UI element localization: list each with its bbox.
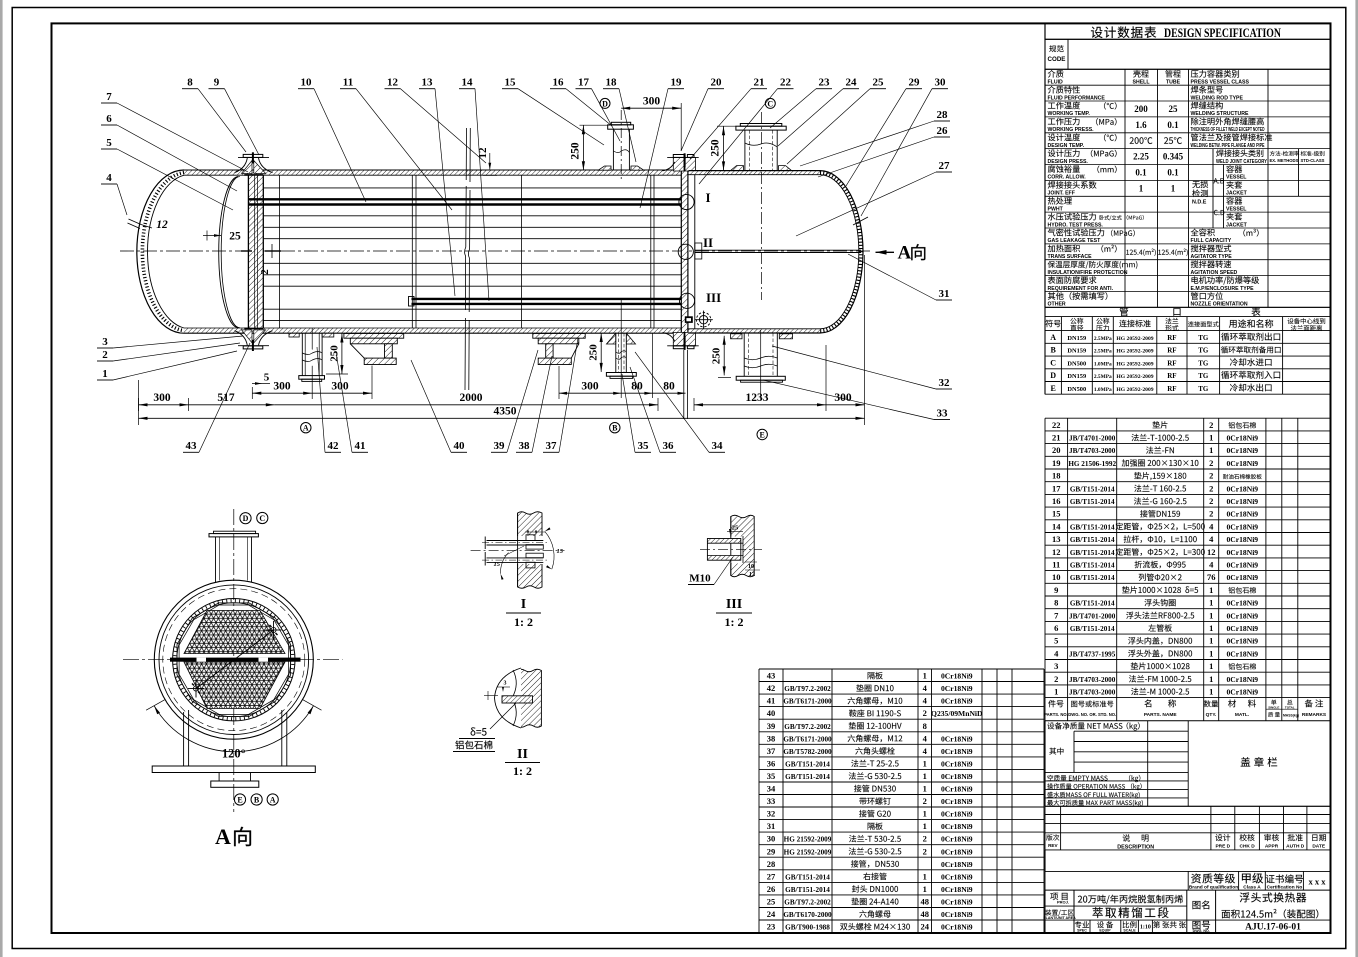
svg-text:23: 23 [819, 77, 831, 89]
nozzle B (bottom, item 34/35/36) [620, 300, 622, 398]
svg-text:18: 18 [1052, 471, 1061, 481]
svg-text:SPEC: SPEC [1077, 929, 1087, 933]
svg-text:9: 9 [214, 77, 220, 89]
dim 2 tubesheet gap [259, 269, 271, 275]
svg-text:A: A [898, 243, 912, 264]
svg-text:19: 19 [1052, 458, 1061, 468]
break lines [465, 128, 467, 390]
svg-text:CODE: CODE [1048, 56, 1066, 63]
svg-text:DN500: DN500 [1067, 360, 1086, 367]
svg-text:11: 11 [1052, 560, 1060, 570]
svg-text:WELD JOINT CATEGORY: WELD JOINT CATEGORY [1216, 159, 1268, 165]
nozzle schedule table [1045, 23, 1330, 394]
svg-text:II: II [517, 747, 528, 762]
svg-text:2: 2 [923, 796, 927, 806]
svg-text:0Cr18Ni9: 0Cr18Ni9 [941, 672, 973, 681]
svg-text:6: 6 [106, 113, 112, 125]
svg-text:10: 10 [748, 564, 754, 570]
svg-text:1: 1 [1209, 687, 1213, 697]
A-view shell circles [173, 599, 295, 721]
svg-text:1: 1 [923, 784, 927, 794]
svg-text:PRESS VESSEL CLASS: PRESS VESSEL CLASS [1191, 80, 1250, 86]
svg-text:M10: M10 [689, 573, 711, 585]
svg-text:REQUIREMENT FOR ANTI.: REQUIREMENT FOR ANTI. [1048, 286, 1114, 292]
svg-text:120°: 120° [222, 747, 246, 761]
main centerline [120, 250, 872, 252]
nozzle A (bottom left) [311, 328, 313, 399]
svg-text:0.345: 0.345 [1163, 152, 1184, 162]
svg-text:RF: RF [1167, 372, 1176, 380]
svg-text:I: I [521, 597, 526, 612]
svg-text:40: 40 [454, 440, 466, 452]
design specification table [1045, 23, 1330, 307]
svg-text:37: 37 [767, 746, 776, 756]
left tubesheet column (item 6) [248, 175, 263, 329]
label C circle [765, 98, 775, 108]
dim 2000 [275, 404, 658, 406]
svg-text:20: 20 [1052, 445, 1061, 455]
svg-text:28: 28 [937, 109, 949, 121]
svg-text:7: 7 [1054, 610, 1059, 620]
svg-text:43: 43 [186, 440, 198, 452]
svg-text:0Cr18Ni9: 0Cr18Ni9 [1226, 675, 1258, 684]
svg-text:13: 13 [1052, 534, 1061, 544]
svg-text:GB/T6170-2000: GB/T6170-2000 [783, 911, 832, 919]
svg-text:GB/T151-2014: GB/T151-2014 [1070, 549, 1115, 557]
svg-text:C: C [767, 99, 773, 108]
svg-text:0Cr18Ni9: 0Cr18Ni9 [941, 885, 973, 894]
svg-text:34: 34 [767, 784, 776, 794]
svg-text:1: 1 [923, 871, 927, 881]
svg-text:0Cr18Ni9: 0Cr18Ni9 [1226, 688, 1258, 697]
svg-text:48: 48 [921, 909, 930, 919]
svg-text:GB/T151-2014: GB/T151-2014 [785, 760, 830, 768]
svg-text:25: 25 [229, 231, 241, 243]
upper tie-rod band (items 10/13/14) [248, 198, 681, 200]
svg-text:0Cr18Ni9: 0Cr18Ni9 [1226, 497, 1258, 506]
svg-text:0Cr18Ni9: 0Cr18Ni9 [1226, 649, 1258, 658]
svg-text:CORR. ALLOW.: CORR. ALLOW. [1048, 175, 1087, 181]
svg-text:1: 1 [1209, 433, 1213, 443]
cover dished head [820, 171, 863, 333]
svg-text:0Cr18Ni9: 0Cr18Ni9 [1226, 484, 1258, 493]
detail I expansion marks [526, 535, 535, 541]
svg-text:GB/T151-2014: GB/T151-2014 [1070, 523, 1115, 531]
svg-text:0Cr18Ni9: 0Cr18Ni9 [941, 860, 973, 869]
detail III dims [727, 531, 743, 533]
cover partition plate (item 31) [695, 249, 861, 251]
svg-text:0Cr18Ni9: 0Cr18Ni9 [1226, 599, 1258, 608]
svg-text:0Cr18Ni9: 0Cr18Ni9 [941, 772, 973, 781]
svg-text:RF: RF [1167, 385, 1176, 393]
svg-text:12: 12 [387, 77, 399, 89]
dim 1233/300 [694, 404, 865, 406]
svg-text:EX. METHODS: EX. METHODS [1270, 158, 1299, 163]
svg-text:RF: RF [1167, 334, 1176, 342]
svg-text:24: 24 [846, 77, 858, 89]
svg-text:20: 20 [711, 77, 723, 89]
svg-text:E: E [1051, 384, 1056, 393]
svg-text:B: B [612, 424, 618, 433]
svg-text:34: 34 [712, 440, 724, 452]
svg-text:2: 2 [1209, 420, 1213, 430]
svg-text:DN159: DN159 [1067, 348, 1086, 355]
svg-text:0Cr18Ni9: 0Cr18Ni9 [941, 910, 973, 919]
floating head assembly hint [695, 243, 702, 259]
svg-text:0Cr18Ni9: 0Cr18Ni9 [1226, 510, 1258, 519]
svg-text:4: 4 [923, 696, 928, 706]
canvas edge strips [0, 0, 3, 957]
svg-text:1233: 1233 [746, 392, 769, 404]
svg-text:SINGLE: SINGLE [1268, 706, 1279, 710]
svg-text:22: 22 [780, 77, 792, 89]
svg-text:E: E [760, 430, 765, 439]
120 degree arc [154, 706, 313, 752]
bottom nozzle label E [757, 429, 767, 439]
svg-text:30: 30 [767, 834, 776, 844]
A-view saddle [183, 712, 185, 766]
svg-text:15: 15 [505, 77, 517, 89]
svg-text:2.5MPa: 2.5MPa [1094, 349, 1112, 355]
svg-text:21: 21 [754, 77, 765, 89]
svg-text:HG 21592-2009: HG 21592-2009 [784, 848, 832, 856]
svg-text:0Cr18Ni9: 0Cr18Ni9 [1226, 561, 1258, 570]
svg-text:1: 1 [1209, 648, 1213, 658]
svg-text:27: 27 [767, 871, 776, 881]
svg-text:THICKNESS OF FILLET WELD EXCEP: THICKNESS OF FILLET WELD EXCEPT NOTED [1191, 127, 1265, 133]
svg-text:GB/T151-2014: GB/T151-2014 [1070, 625, 1115, 633]
svg-text:0Cr18Ni9: 0Cr18Ni9 [941, 747, 973, 756]
svg-text:31: 31 [939, 288, 950, 300]
detail I tube ends [487, 540, 544, 542]
svg-text:33: 33 [937, 407, 949, 419]
svg-text:GB/T151-2014: GB/T151-2014 [1070, 485, 1115, 493]
svg-text:E.M.P/ENCLOSURE TYPE: E.M.P/ENCLOSURE TYPE [1191, 286, 1255, 292]
svg-text:31: 31 [767, 821, 776, 831]
svg-text:CHK D: CHK D [1239, 844, 1255, 850]
svg-text:35: 35 [767, 771, 776, 781]
svg-text:38: 38 [767, 733, 776, 743]
detail II gasket groove outline [495, 668, 522, 728]
svg-text:0Cr18Ni9: 0Cr18Ni9 [1226, 535, 1258, 544]
svg-text:PRE D: PRE D [1215, 844, 1230, 850]
svg-text:300: 300 [273, 381, 291, 393]
dim 4350 [139, 417, 865, 419]
svg-text:0Cr18Ni9: 0Cr18Ni9 [941, 822, 973, 831]
svg-text:48: 48 [921, 897, 930, 907]
title block [1043, 890, 1330, 933]
svg-text:C: C [259, 514, 265, 523]
svg-text:DN500: DN500 [1067, 386, 1086, 393]
svg-text:8: 8 [187, 77, 193, 89]
svg-text:GB/T97.2-2002: GB/T97.2-2002 [784, 685, 831, 693]
svg-text:DWG. NO.: DWG. NO. [1193, 929, 1210, 933]
svg-text:21: 21 [1052, 433, 1061, 443]
svg-text:HG 20592-2009: HG 20592-2009 [1116, 349, 1153, 355]
dim 250 nozzle D [580, 124, 623, 126]
svg-text:15: 15 [494, 561, 501, 568]
svg-text:REMARKS: REMARKS [1302, 712, 1327, 718]
saddle support 2 (item 40) [533, 334, 585, 339]
dim 250 nozzle C [717, 125, 736, 127]
svg-text:GB/T151-2014: GB/T151-2014 [785, 773, 830, 781]
svg-text:WORKING PRESS.: WORKING PRESS. [1048, 127, 1095, 133]
svg-text:80: 80 [663, 381, 675, 393]
svg-text:23: 23 [767, 922, 776, 932]
svg-text:0Cr18Ni9: 0Cr18Ni9 [1226, 573, 1258, 582]
detail indicator III [679, 293, 694, 308]
svg-text:300: 300 [581, 381, 599, 393]
svg-text:DATE: DATE [1312, 844, 1326, 850]
detail II gasket [502, 696, 533, 703]
svg-text:1: 1 [1209, 661, 1213, 671]
right flange bolts top [673, 155, 684, 158]
svg-text:III: III [706, 290, 721, 305]
dim 250 nozzle B [600, 333, 602, 372]
svg-text:HG 20592-2009: HG 20592-2009 [1116, 374, 1153, 380]
tie rod marks [271, 627, 276, 632]
svg-text:32: 32 [767, 809, 776, 819]
svg-text:0Cr18Ni9: 0Cr18Ni9 [941, 847, 973, 856]
svg-text:x x x: x x x [1309, 877, 1327, 887]
svg-text:APPR: APPR [1265, 844, 1279, 850]
right flange bolts bottom [673, 346, 684, 349]
svg-text:1:10: 1:10 [1140, 925, 1151, 931]
A-view top nozzle [215, 537, 217, 582]
svg-text:300: 300 [153, 392, 171, 404]
svg-text:2: 2 [259, 269, 271, 275]
svg-text:19: 19 [671, 77, 683, 89]
svg-text:SCALE: SCALE [1123, 929, 1136, 933]
dim 250 nozzle A [341, 334, 343, 375]
svg-text:NOZZLE ORIENTATION: NOZZLE ORIENTATION [1191, 302, 1248, 308]
svg-text:III: III [726, 597, 742, 612]
svg-text:DESIGN PRESS.: DESIGN PRESS. [1048, 159, 1089, 165]
dim 12 shell thickness [489, 153, 491, 169]
svg-text:GB/T6171-2000: GB/T6171-2000 [783, 698, 832, 706]
svg-text:4: 4 [923, 683, 928, 693]
svg-text:250: 250 [569, 142, 581, 160]
svg-text:A: A [215, 824, 231, 849]
svg-text:RF: RF [1167, 359, 1176, 367]
svg-text:5: 5 [106, 137, 112, 149]
qualification row [1045, 871, 1330, 890]
svg-text:0Cr18Ni9: 0Cr18Ni9 [1226, 637, 1258, 646]
svg-text:HG 20592-2009: HG 20592-2009 [1116, 361, 1153, 367]
svg-text:40: 40 [767, 708, 776, 718]
svg-text:5: 5 [264, 372, 270, 384]
svg-text:4: 4 [923, 746, 928, 756]
svg-text:JB/T4703-2000: JB/T4703-2000 [1069, 689, 1116, 697]
left girth flange hubs top (items 1/2) [242, 161, 253, 174]
svg-text:25: 25 [767, 897, 776, 907]
right tubesheet column (item 6) [681, 171, 688, 332]
svg-text:0Cr18Ni9: 0Cr18Ni9 [1226, 434, 1258, 443]
svg-text:VESSEL: VESSEL [1226, 207, 1247, 213]
svg-text:2.5MPa: 2.5MPa [1094, 374, 1112, 380]
svg-text:250: 250 [710, 347, 722, 364]
A-view shell ring hatch [175, 601, 293, 719]
svg-text:1: 1 [1209, 445, 1213, 455]
svg-text:0Cr18Ni9: 0Cr18Ni9 [941, 697, 973, 706]
svg-text:DN159: DN159 [1067, 373, 1086, 380]
svg-text:WELDING ROD TYPE: WELDING ROD TYPE [1191, 95, 1244, 101]
svg-text:DESIGN TEMP.: DESIGN TEMP. [1048, 143, 1085, 149]
svg-text:D: D [1050, 371, 1056, 380]
A-view direction arrow [876, 251, 895, 253]
svg-text:QTY.: QTY. [1206, 712, 1217, 718]
svg-text:9: 9 [1054, 585, 1058, 595]
svg-text:2: 2 [1209, 496, 1213, 506]
detail indicator II [678, 244, 693, 259]
svg-text:HG 21592-2009: HG 21592-2009 [784, 836, 832, 844]
svg-text:GB/T151-2014: GB/T151-2014 [1070, 574, 1115, 582]
svg-text:1: 2: 1: 2 [513, 764, 532, 778]
svg-text:GB/T151-2014: GB/T151-2014 [1070, 600, 1115, 608]
svg-text:37: 37 [546, 440, 558, 452]
right girth flange hub wedges top [673, 157, 695, 171]
svg-text:DESIGN SPECIFICATION: DESIGN SPECIFICATION [1164, 26, 1282, 40]
svg-text:35: 35 [638, 440, 650, 452]
svg-text:JB/T4737-1995: JB/T4737-1995 [1069, 650, 1116, 658]
svg-text:E: E [237, 795, 242, 804]
svg-text:JB/T4703-2000: JB/T4703-2000 [1069, 447, 1116, 455]
dim 300 top (nozzle D to flange) [621, 107, 681, 109]
svg-text:27: 27 [939, 160, 951, 172]
svg-text:4: 4 [106, 172, 112, 184]
svg-text:TUBE: TUBE [1166, 80, 1181, 86]
svg-text:12: 12 [156, 219, 168, 231]
svg-text:8: 8 [923, 721, 927, 731]
tube bundle upper block [184, 611, 285, 654]
svg-text:TG: TG [1198, 359, 1209, 367]
svg-text:A: A [270, 795, 276, 804]
A-view gasket circle [159, 585, 309, 735]
svg-text:D: D [602, 99, 608, 108]
svg-text:JACKET: JACKET [1226, 191, 1248, 197]
svg-text:1: 1 [1209, 598, 1213, 608]
svg-text:39: 39 [767, 721, 776, 731]
head thickness tick [853, 217, 868, 225]
svg-text:10: 10 [301, 77, 313, 89]
svg-text:GB/T151-2014: GB/T151-2014 [1070, 562, 1115, 570]
svg-text:B: B [1051, 346, 1057, 355]
svg-text:II: II [703, 235, 713, 250]
svg-text:1: 2: 1: 2 [725, 615, 744, 629]
svg-text:1.6: 1.6 [1135, 120, 1147, 130]
svg-text:0Cr18Ni9: 0Cr18Ni9 [1226, 446, 1258, 455]
svg-text:300: 300 [834, 392, 852, 404]
dim 300/80/80 row [559, 392, 686, 394]
detail II leader and material note [490, 703, 516, 729]
left flange bolt top (item 23) [243, 154, 263, 157]
shell wall top [184, 170, 681, 175]
svg-text:42: 42 [328, 440, 340, 452]
svg-text:JACKET: JACKET [1226, 222, 1248, 228]
svg-text:0.1: 0.1 [1167, 168, 1179, 178]
svg-text:29: 29 [909, 77, 921, 89]
svg-text:WELDING STRUCTURE: WELDING STRUCTURE [1191, 111, 1249, 117]
svg-text:1: 1 [923, 884, 927, 894]
nozzle C (top on cover, item C) [761, 112, 763, 300]
svg-text:5: 5 [1054, 636, 1058, 646]
svg-text:41: 41 [767, 696, 776, 706]
svg-text:25: 25 [732, 525, 739, 532]
svg-text:REV: REV [1048, 843, 1058, 848]
svg-text:24: 24 [921, 922, 930, 932]
svg-text:1: 1 [1139, 183, 1144, 193]
svg-text:2: 2 [1209, 509, 1213, 519]
svg-text:38: 38 [519, 440, 531, 452]
svg-text:Q235/09MnNiD: Q235/09MnNiD [931, 709, 983, 718]
svg-text:43: 43 [767, 671, 776, 681]
svg-text:EQUIP: EQUIP [1099, 929, 1111, 933]
svg-text:JB/T4701-2000: JB/T4701-2000 [1069, 435, 1116, 443]
svg-text:41: 41 [355, 440, 366, 452]
detail I tubesheet section [518, 512, 542, 589]
revision rows [1045, 806, 1330, 871]
svg-text:C: C [1050, 358, 1056, 367]
svg-text:1: 1 [923, 758, 927, 768]
svg-text:JB/T4703-2000: JB/T4703-2000 [1069, 676, 1116, 684]
svg-text:1: 1 [923, 809, 927, 819]
svg-text:14: 14 [462, 77, 474, 89]
svg-text:1: 1 [923, 671, 927, 681]
channel inner arc [219, 177, 238, 328]
svg-text:PLANT/UNIT AREA: PLANT/UNIT AREA [1043, 916, 1076, 920]
svg-text:36: 36 [767, 758, 776, 768]
svg-text:2: 2 [923, 846, 927, 856]
svg-text:TG: TG [1198, 372, 1209, 380]
dim 5/300/300 row [252, 383, 270, 385]
svg-text:A: A [303, 424, 309, 433]
svg-text:1: 1 [1209, 585, 1213, 595]
detail III tubesheet section [731, 515, 754, 577]
bottom dim line row1 (300/517) [139, 404, 275, 406]
svg-text:JOINT. EFF: JOINT. EFF [1048, 191, 1075, 197]
svg-text:0Cr18Ni9: 0Cr18Ni9 [941, 923, 973, 932]
svg-text:18: 18 [606, 77, 618, 89]
tube field lines [263, 187, 681, 189]
left girth flange hubs bottom [242, 330, 253, 343]
svg-text:AGITATOR TYPE: AGITATOR TYPE [1191, 254, 1233, 260]
svg-text:OTHER: OTHER [1048, 302, 1066, 308]
svg-text:11: 11 [343, 77, 353, 89]
svg-text:PARTS. NAME: PARTS. NAME [1144, 712, 1177, 718]
svg-text:GB/T900-1988: GB/T900-1988 [785, 924, 830, 932]
svg-text:GB/T97.2-2002: GB/T97.2-2002 [784, 723, 831, 731]
left parts list (items 43-23) [759, 669, 1044, 933]
svg-text:16: 16 [553, 77, 565, 89]
svg-text:1: 1 [1209, 623, 1213, 633]
svg-text:300: 300 [643, 95, 661, 107]
nozzle D (top, item D) [620, 110, 622, 180]
svg-text:AGITATION SPEED: AGITATION SPEED [1191, 270, 1238, 276]
earth lug symbol [685, 316, 693, 323]
detail indicator I [679, 194, 694, 209]
svg-text:0Cr18Ni9: 0Cr18Ni9 [941, 872, 973, 881]
svg-text:HYDRO. TEST PRESS.: HYDRO. TEST PRESS. [1048, 222, 1104, 228]
lower tie-rod band [412, 298, 682, 300]
svg-text:MATL.: MATL. [1235, 712, 1249, 718]
svg-text:250: 250 [588, 344, 600, 361]
left dished head (item 26) [137, 170, 184, 333]
svg-text:FLUID PERFORMANCE: FLUID PERFORMANCE [1048, 95, 1106, 101]
svg-text:1: 1 [1209, 674, 1213, 684]
svg-text:PWHT: PWHT [1048, 207, 1064, 213]
svg-text:GB/T151-2014: GB/T151-2014 [785, 873, 830, 881]
saddle support 1 (item 40) [344, 334, 404, 339]
